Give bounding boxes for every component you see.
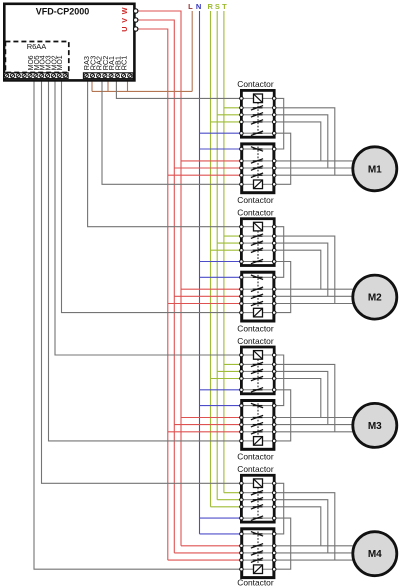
wire: T phase to K2A contact 1 (green) xyxy=(224,235,242,237)
motor M2 xyxy=(353,275,397,319)
contactor K1B linkage xyxy=(257,147,259,180)
wire: T phase to K3A contact 1 (green) xyxy=(224,363,242,365)
contactor K2A aux contact xyxy=(243,261,252,263)
svg-text:W: W xyxy=(120,7,129,14)
wire: N to K4B aux contact (blue) xyxy=(200,533,242,535)
contactor K4B aux contact xyxy=(243,533,252,535)
wire: K4A coil to K4B aux interlock (gray) xyxy=(274,483,284,534)
svg-text:S: S xyxy=(215,2,220,11)
wire: W to K4B contact 1 (red) xyxy=(181,545,241,547)
VFD drive U1: VFD-CP2000 xyxy=(4,4,134,81)
wire: R phase to K4A contact 3 (green) xyxy=(211,506,242,508)
wire: T phase to K1A contact 1 (green) xyxy=(224,107,242,109)
wire: S phase to K2A contact 2 (green) xyxy=(217,242,241,244)
wire: motor M2 phase 3 (gray) xyxy=(274,303,353,305)
wire: N to K1B aux contact (blue) xyxy=(200,148,242,150)
wire: relay output to contactor K1A coil (gray) xyxy=(116,79,241,99)
wire: L to relay commons (brown) xyxy=(92,90,192,92)
wire: K3A contact 2 output (gray) xyxy=(274,371,328,424)
contactor K2B main contact 3 xyxy=(243,303,252,305)
contactor K2A main contact 1 xyxy=(243,235,252,237)
contactor K1A main contact 1 xyxy=(243,107,252,109)
svg-text:M4: M4 xyxy=(368,549,382,560)
contactor K1A box xyxy=(241,90,274,137)
svg-text:Contactor: Contactor xyxy=(237,464,274,474)
contactor K4A aux contact xyxy=(243,517,252,519)
wire: R phase to K3A contact 3 (green) xyxy=(211,378,242,380)
wire: U output bus (red) xyxy=(136,29,168,560)
wire: U to K1B contact 3 (red) xyxy=(168,174,242,176)
wire: T phase to K4A contact 1 (green) xyxy=(224,492,242,494)
contactor K3B main contact 3 xyxy=(243,431,252,433)
wire: V to K2B contact 2 (red) xyxy=(174,295,241,297)
wire: K4A contact 3 output (gray) xyxy=(274,507,321,546)
wire: K4A aux to K4B coil interlock (gray) xyxy=(274,518,291,569)
wire: V to K3B contact 2 (red) xyxy=(174,424,241,426)
svg-text:Contactor: Contactor xyxy=(237,79,274,89)
wire: RC3 stub (brown) xyxy=(91,79,93,92)
wire: motor M1 phase 3 (gray) xyxy=(274,174,353,176)
wire: motor M4 phase 1 (gray) xyxy=(274,545,353,547)
svg-text:Contactor: Contactor xyxy=(237,577,274,587)
wire: U to K2B contact 3 (red) xyxy=(168,303,242,305)
wire: T phase bus (green) xyxy=(223,11,225,493)
wire: K1A coil to K1B aux interlock (gray) xyxy=(274,98,284,149)
contactor K3B terminals xyxy=(240,404,244,408)
contactor K3A aux contact xyxy=(243,389,252,391)
contactor K4A main contact 2 xyxy=(243,499,252,501)
wire: V to K4B contact 2 (red) xyxy=(174,552,241,554)
contactor K2B aux contact xyxy=(243,276,252,278)
wire: W to K3B contact 1 (red) xyxy=(181,417,241,419)
wire: motor M3 phase 1 (gray) xyxy=(274,417,353,419)
wire: motor M4 phase 3 (gray) xyxy=(274,559,353,561)
contactor K2A terminals xyxy=(240,225,244,229)
terminal strip TB2 (relay outputs) xyxy=(83,73,133,79)
wire: R phase to K1A contact 3 (green) xyxy=(211,121,242,123)
wire: motor M3 phase 2 (gray) xyxy=(274,424,353,426)
contactor K3B main contact 1 xyxy=(243,417,252,419)
wire: motor M4 phase 2 (gray) xyxy=(274,552,353,554)
wire: K2A aux to K2B coil interlock (gray) xyxy=(274,262,291,313)
wire: N to K3B aux contact (blue) xyxy=(200,405,242,407)
motor M3 xyxy=(353,403,397,447)
contactor K1B terminals xyxy=(240,147,244,151)
wire: K1A contact 3 output (gray) xyxy=(274,122,321,161)
wire: S phase to K4A contact 2 (green) xyxy=(217,499,241,501)
contactor K3A terminals xyxy=(240,353,244,357)
contactor K3B main contact 2 xyxy=(243,424,252,426)
contactor K4A main contact 3 xyxy=(243,506,252,508)
wire: relay output to contactor K4B coil (gray) xyxy=(34,79,241,570)
wire: K3A aux to K3B coil interlock (gray) xyxy=(274,390,291,441)
svg-text:Contactor: Contactor xyxy=(237,336,274,346)
contactor K3B box xyxy=(242,401,274,450)
contactor K4B main contact 3 xyxy=(243,559,252,561)
contactor K4B box xyxy=(242,529,274,578)
svg-text:Contactor: Contactor xyxy=(237,195,274,205)
wire: K4A contact 2 output (gray) xyxy=(274,500,328,553)
terminal strip TB1 (R6AA outputs) xyxy=(4,73,68,79)
wire: relay output to contactor K2B coil (gray) xyxy=(62,79,242,313)
wire: relay output to contactor K3A coil (gray) xyxy=(55,79,241,356)
motor M1 xyxy=(353,147,397,191)
wire: N to K2B aux contact (blue) xyxy=(200,276,242,278)
svg-text:U: U xyxy=(120,27,129,32)
wire: V output bus (red) xyxy=(136,20,175,553)
contactor K3A coil xyxy=(243,354,254,356)
contactor K3A main contact 1 xyxy=(243,363,252,365)
wire: relay output to contactor K3B coil (gray) xyxy=(49,79,242,441)
wire: R phase to K2A contact 3 (green) xyxy=(211,249,242,251)
contactor K1A terminals xyxy=(240,97,244,101)
contactor K1A linkage xyxy=(257,103,259,135)
contactor K3A linkage xyxy=(257,359,259,391)
wire: U to K4B contact 3 (red) xyxy=(168,559,242,561)
wire: K2A contact 3 output (gray) xyxy=(274,250,321,289)
wire: RC2 stub (brown) xyxy=(107,79,109,92)
contactor K1B main contact 1 xyxy=(243,160,252,162)
wire: N neutral bus (blue) xyxy=(199,11,201,534)
wire: K2A coil to K2B aux interlock (gray) xyxy=(274,227,284,278)
relay card U2: R6AA xyxy=(5,42,68,73)
contactor K1A main contact 2 xyxy=(243,114,252,116)
wire: N to K3A aux contact (blue) xyxy=(200,389,242,391)
svg-text:Contactor: Contactor xyxy=(237,208,274,218)
wire: R phase bus (green) xyxy=(210,11,212,507)
svg-text:T: T xyxy=(222,2,227,11)
contactor K4B coil xyxy=(243,568,254,570)
contactor K2A coil xyxy=(243,226,254,228)
contactor K4A terminals xyxy=(240,482,244,486)
wire: K1A contact 2 output (gray) xyxy=(274,115,328,168)
contactor K4B main contact 2 xyxy=(243,552,252,554)
wire: relay output to contactor K4A coil (gray) xyxy=(42,79,242,484)
svg-text:RC1: RC1 xyxy=(120,56,129,71)
wire: K1A contact 1 output (gray) xyxy=(274,108,335,175)
contactor K2B main contact 1 xyxy=(243,288,252,290)
contactor K1B main contact 3 xyxy=(243,174,252,176)
svg-text:M2: M2 xyxy=(368,293,382,304)
wire: S phase to K1A contact 2 (green) xyxy=(217,114,241,116)
wire: V to K1B contact 2 (red) xyxy=(174,167,241,169)
svg-text:N: N xyxy=(196,2,201,11)
wire: motor M1 phase 2 (gray) xyxy=(274,167,353,169)
contactor K1A aux contact xyxy=(243,132,252,134)
wire: W to K1B contact 1 (red) xyxy=(181,160,241,162)
contactor K4B terminals xyxy=(240,532,244,536)
contactor K3B linkage xyxy=(257,403,259,436)
wire: N to K1A aux contact (blue) xyxy=(200,132,242,134)
contactor K3B coil xyxy=(243,440,254,442)
wire: S phase to K3A contact 2 (green) xyxy=(217,370,241,372)
wire: U to K3B contact 3 (red) xyxy=(168,431,242,433)
VFD output terminals U V W xyxy=(134,9,138,13)
contactor K4A linkage xyxy=(257,488,259,520)
wire: N to K2A aux contact (blue) xyxy=(200,261,242,263)
contactor K2A main contact 2 xyxy=(243,242,252,244)
contactor K1B aux contact xyxy=(243,148,252,150)
svg-text:V: V xyxy=(120,18,129,23)
contactor K4A coil xyxy=(243,482,254,484)
contactor K4A main contact 1 xyxy=(243,492,252,494)
contactor K3B aux contact xyxy=(243,405,252,407)
contactor K2A box xyxy=(241,219,274,266)
contactor K4B linkage xyxy=(257,532,259,565)
contactor K2A main contact 3 xyxy=(243,249,252,251)
svg-text:M1: M1 xyxy=(368,164,382,175)
motor M4 xyxy=(353,532,397,576)
contactor K1A main contact 3 xyxy=(243,121,252,123)
svg-text:MO1: MO1 xyxy=(57,55,64,70)
contactor K2B main contact 2 xyxy=(243,295,252,297)
wire: W to K2B contact 1 (red) xyxy=(181,288,241,290)
wire: K3A coil to K3B aux interlock (gray) xyxy=(274,355,284,406)
wire: N to K4A aux contact (blue) xyxy=(200,517,242,519)
contactor K2B linkage xyxy=(257,275,259,308)
contactor K3A main contact 2 xyxy=(243,370,252,372)
contactor K3A box xyxy=(241,347,274,394)
wire: relay output to contactor K1B coil (gray) xyxy=(102,79,241,185)
contactor K2B coil xyxy=(243,312,254,314)
wire: motor M1 phase 1 (gray) xyxy=(274,160,353,162)
wire: RC1 stub (brown) xyxy=(127,79,129,92)
contactor K1B coil xyxy=(243,183,254,185)
svg-text:Contactor: Contactor xyxy=(237,452,274,462)
wire: K3A contact 1 output (gray) xyxy=(274,364,335,431)
svg-text:L: L xyxy=(188,2,193,11)
wire: K1A aux to K1B coil interlock (gray) xyxy=(274,133,291,184)
wire: K3A contact 3 output (gray) xyxy=(274,379,321,418)
contactor K1B box xyxy=(242,144,274,193)
contactor K1A coil xyxy=(243,97,254,99)
wire: W output bus (red) xyxy=(136,11,181,546)
svg-text:R: R xyxy=(207,2,213,11)
wire: relay output to contactor K2A coil (gray) xyxy=(88,79,242,227)
contactor K4B main contact 1 xyxy=(243,545,252,547)
contactor K2A linkage xyxy=(257,231,259,263)
svg-text:M3: M3 xyxy=(368,421,382,432)
wire: K2A contact 2 output (gray) xyxy=(274,243,328,296)
contactor K3A main contact 3 xyxy=(243,378,252,380)
wire: motor M2 phase 2 (gray) xyxy=(274,295,353,297)
svg-text:R6AA: R6AA xyxy=(27,42,47,51)
wire: K4A contact 1 output (gray) xyxy=(274,493,335,560)
wire: L phase bus (brown) xyxy=(191,11,193,91)
contactor K4A box xyxy=(241,475,274,522)
svg-text:VFD-CP2000: VFD-CP2000 xyxy=(36,7,90,17)
contactor K2B box xyxy=(242,272,274,321)
wire: motor M3 phase 3 (gray) xyxy=(274,431,353,433)
svg-text:Contactor: Contactor xyxy=(237,323,274,333)
wire: S phase bus (green) xyxy=(216,11,218,500)
wire: K2A contact 1 output (gray) xyxy=(274,236,335,303)
contactor K2B terminals xyxy=(240,276,244,280)
contactor K1B main contact 2 xyxy=(243,167,252,169)
wire: motor M2 phase 1 (gray) xyxy=(274,288,353,290)
